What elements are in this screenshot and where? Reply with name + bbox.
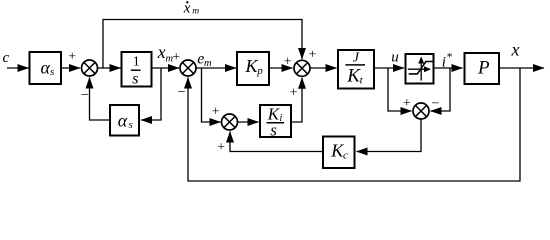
wire Kc output left and up to S4 bottom, plus sign — [217, 132, 323, 156]
node e_m label — [197, 51, 212, 69]
block Kc anti-windup gain — [323, 137, 355, 169]
svg-text:+: + — [68, 50, 76, 65]
wire position feedback x down and back to S2, minus sign — [178, 68, 520, 181]
wire S2 to block Kp — [196, 67, 236, 69]
svg-text:−: − — [178, 85, 186, 100]
svg-text:s: s — [132, 70, 138, 87]
block P plant — [465, 53, 500, 84]
wire e_m takeoff down to summer S4 — [202, 68, 221, 122]
minus sign S1 bottom input — [81, 88, 89, 103]
wire S4 to block Ki/s — [238, 121, 259, 123]
block alpha_s feedback — [110, 105, 139, 136]
svg-text:+: + — [284, 54, 292, 69]
svg-text:m: m — [192, 7, 199, 17]
wire xdot_m takeoff up and across to summer S3 — [103, 20, 302, 69]
svg-text:+: + — [217, 140, 225, 155]
block Kp proportional gain — [237, 52, 269, 85]
node x output label — [511, 40, 520, 60]
svg-text:−: − — [81, 88, 89, 103]
svg-text:x: x — [511, 40, 520, 60]
wire i* takeoff down to summer S5, minus sign — [431, 68, 451, 112]
block J/Kt — [338, 50, 374, 89]
wire u takeoff down to summer S5, plus sign — [388, 68, 412, 111]
svg-text:u: u — [391, 49, 399, 65]
wire c to block alpha_s — [7, 67, 29, 69]
wire x_m takeoff down to block alpha_s feedback — [141, 68, 161, 120]
svg-text:+: + — [172, 50, 180, 65]
block alpha_s (feedforward gain) — [30, 52, 62, 84]
svg-text:c: c — [343, 149, 348, 161]
wire alpha_s feedback up to S1 bottom — [90, 78, 111, 121]
summing junction S1 — [82, 60, 98, 76]
wire S1 to block 1/s — [98, 67, 121, 69]
block saturation limiter — [406, 54, 434, 84]
svg-text:*: * — [447, 51, 453, 63]
svg-text:p: p — [256, 65, 263, 77]
svg-text:+: + — [308, 48, 316, 63]
svg-text:c: c — [3, 50, 10, 66]
block 1/s integrator — [122, 52, 152, 87]
wire S3 to block J/Kt — [310, 67, 336, 69]
wire Kp to summer S3, plus sign — [269, 54, 293, 69]
svg-text:α: α — [118, 110, 128, 130]
node i* label — [442, 51, 453, 70]
summing junction S2 — [180, 60, 196, 76]
wire alpha_s to summer S1, plus sign — [61, 50, 80, 69]
wire S5 output down and left to block Kc — [357, 119, 422, 152]
summing junction S3 — [294, 60, 310, 76]
wire saturation to block P — [434, 67, 463, 69]
svg-text:s: s — [50, 66, 54, 78]
node xdot_m label — [183, 0, 200, 16]
svg-text:t: t — [360, 75, 364, 87]
node c input label — [3, 50, 10, 66]
svg-text:s: s — [129, 119, 133, 131]
summing junction S5 anti-windup — [413, 103, 429, 119]
node u label — [391, 49, 399, 65]
svg-text:−: − — [432, 97, 440, 112]
svg-text:J: J — [353, 51, 360, 66]
svg-text:s: s — [270, 121, 277, 140]
wire J/Kt to saturation block — [374, 67, 404, 69]
svg-text:+: + — [403, 96, 411, 111]
plus sign top input S3 — [308, 48, 316, 63]
svg-text:P: P — [477, 58, 490, 79]
svg-text:+: + — [290, 86, 298, 101]
block Ki/s integral gain — [260, 105, 291, 140]
svg-text:α: α — [41, 57, 51, 77]
plus sign S4 left input — [212, 105, 220, 120]
wire P to output x — [499, 67, 544, 69]
svg-text:+: + — [212, 105, 220, 120]
svg-text:x: x — [157, 42, 166, 62]
wire Ki/s up to summer S3 bottom, plus sign — [290, 78, 302, 122]
svg-text:m: m — [204, 58, 212, 69]
node x_m label — [157, 42, 174, 65]
summing junction S4 integral path — [222, 114, 238, 130]
wire 1/s to summer S2, plus sign — [152, 50, 181, 68]
svg-text:1: 1 — [133, 55, 140, 70]
